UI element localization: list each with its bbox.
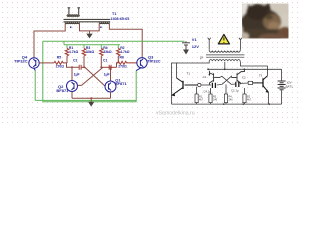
R4 lead down <box>100 57 102 68</box>
V1 negative arrow (down) <box>183 50 189 55</box>
ground arrow symbol (down) <box>88 102 94 107</box>
transistor T1 (right schematic) <box>172 78 198 96</box>
emitter rail junction dot <box>90 97 92 99</box>
svg-text:270Ω: 270Ω <box>56 65 65 69</box>
transistor Q2 circle <box>67 81 78 92</box>
resistor R3 <box>82 48 85 56</box>
svg-text:4.7kΩ: 4.7kΩ <box>120 50 130 54</box>
svg-text:270Ω: 270Ω <box>118 65 127 69</box>
svg-text:33kΩ: 33kΩ <box>103 50 112 54</box>
inner driver transistor T2 (right schematic) <box>209 71 220 85</box>
svg-text:C2: C2 <box>73 59 77 63</box>
junction node dot (Q2 collector) <box>71 66 73 68</box>
left feed rail of right schematic <box>172 63 177 96</box>
transistor T3 (right schematic) <box>253 76 269 92</box>
cross-coupling wire C2right to Q1 base <box>85 67 106 86</box>
transformer T2 bottom winding <box>209 60 240 62</box>
svg-text:R6: R6 <box>120 56 124 60</box>
svg-text:TIP32C: TIP32C <box>14 59 28 64</box>
battery BAT1 riser <box>281 69 283 104</box>
transformer T2 top winding <box>209 50 240 52</box>
transformer T1 primary left winding <box>65 23 80 24</box>
terminal circle on T1 base <box>198 83 201 86</box>
Q3 emitter stub to green <box>136 67 141 70</box>
wire right winding end to T3 collector <box>240 62 267 76</box>
centre-tap arrow symbol (down) <box>86 34 92 39</box>
wire Q1 emitter down <box>110 92 112 98</box>
svg-text:С2 1μ: С2 1μ <box>231 89 239 93</box>
transistor Q1 circle <box>105 81 116 92</box>
svg-text:V1: V1 <box>192 37 198 42</box>
svg-text:1408:65:65: 1408:65:65 <box>110 17 129 21</box>
phase dot right primary <box>100 27 101 28</box>
capacitor C1 <box>105 65 117 70</box>
svg-text:240: 240 <box>229 98 234 101</box>
ground stem <box>90 98 92 102</box>
+V rail of right schematic <box>208 68 282 70</box>
svg-text:Тр: Тр <box>200 56 204 60</box>
resistor R1 <box>65 48 68 56</box>
capacitor C2 <box>79 65 85 70</box>
bias resistor 3 leads <box>225 85 227 105</box>
green resistor bus <box>64 41 120 45</box>
green bottom return rail (outer) <box>43 101 136 103</box>
electrolytic capacitor C4 <box>212 83 215 88</box>
phase dot left primary <box>70 27 71 28</box>
bias resistor box 4 <box>243 94 246 103</box>
svg-text:1μF: 1μF <box>74 72 80 76</box>
svg-text:4k7: 4k7 <box>247 98 252 101</box>
background dotted grid <box>0 0 300 125</box>
bias resistor 2 leads <box>210 88 212 104</box>
battery V1 <box>182 41 190 49</box>
warning triangle <box>218 34 229 44</box>
svg-text:BF871: BF871 <box>56 88 69 93</box>
svg-text:С2: С2 <box>242 76 246 80</box>
bias resistor 4 leads <box>244 88 246 104</box>
resistor R4 <box>100 48 103 56</box>
transformer T1 primary right winding <box>99 23 109 24</box>
junction dots bottom rail <box>223 103 225 105</box>
svg-text:T3: T3 <box>259 74 263 78</box>
Q4 emitter stub to green <box>34 68 35 70</box>
T1 emitter to bottom rail <box>171 96 173 105</box>
inner driver transistor T4 (right schematic) <box>232 69 245 83</box>
cat photo top right <box>239 3 292 41</box>
T2 collector junction dot <box>209 74 211 76</box>
wire: T1 right primary end right-down to Q3 collector <box>109 24 142 58</box>
Q4 base lead to R5 <box>39 62 54 64</box>
R1 lead down <box>66 57 68 63</box>
wire Q1 collector up <box>110 67 112 81</box>
wire Q2 emitter down <box>71 92 73 99</box>
transformer T1 secondary winding (top) <box>67 8 80 16</box>
green Q4 emitter drop <box>34 70 36 100</box>
svg-text:12V: 12V <box>192 44 199 49</box>
base wire to electrolytic C4 <box>201 84 211 86</box>
R3 lead down <box>83 57 85 68</box>
transformer T1 core <box>64 19 111 21</box>
svg-text:240: 240 <box>213 98 218 101</box>
svg-text:BF871: BF871 <box>115 81 128 86</box>
green bottom return rail (inner) <box>35 99 136 101</box>
resistor R5 <box>54 61 67 64</box>
green left vertical of supply loop <box>42 41 44 102</box>
wire Q4-node horizontal (Q2 collector node) <box>71 67 73 80</box>
green +12V rail <box>43 40 185 42</box>
bottom rail (right schematic) <box>172 103 282 105</box>
T2 centre tap <box>224 62 226 69</box>
junction node dot (R3 base node) <box>83 66 85 68</box>
T3 emitter arrowhead <box>266 90 269 93</box>
transistor Q4 circle <box>29 58 39 68</box>
R6 left link down to node <box>117 62 118 64</box>
wire: T1 left primary end down-left to Q4 collector <box>34 24 65 58</box>
bias resistor box 3 <box>224 94 227 103</box>
green resistor top ticks <box>67 45 118 49</box>
svg-text:БАТ1: БАТ1 <box>286 85 294 89</box>
svg-text:C1: C1 <box>103 59 107 63</box>
svg-text:С1: С1 <box>203 75 207 79</box>
bias resistor box 1 <box>195 94 198 103</box>
svg-text:4.7kΩ: 4.7kΩ <box>69 50 79 54</box>
svg-text:T1: T1 <box>187 72 191 76</box>
resistor R6 <box>118 61 138 64</box>
T1 emitter arrowhead <box>172 93 176 96</box>
cross-coupling X wires (right schematic) <box>220 76 232 84</box>
wire R5 to Q2 collector node <box>67 63 80 67</box>
junction node dot (Q1 collector) <box>110 66 112 68</box>
battery BAT1 cells <box>278 81 286 90</box>
svg-text:1μF: 1μF <box>104 72 110 76</box>
transformer T2 core <box>206 55 244 57</box>
bias resistor box 2 <box>209 94 212 103</box>
svg-text:4k7: 4k7 <box>199 98 204 101</box>
cross-coupling wire C1left to Q2 base <box>78 67 103 85</box>
svg-text:33kΩ: 33kΩ <box>86 50 95 54</box>
electrolytic capacitor C2 (right schematic) <box>236 82 239 87</box>
junction node dot (R4 base node) <box>100 66 102 68</box>
svg-text:vSamodelkina.ru: vSamodelkina.ru <box>156 110 195 116</box>
emitter rail <box>72 97 111 99</box>
svg-text:T1: T1 <box>112 12 116 16</box>
wire: T1 centre tap leads <box>80 24 100 34</box>
transistor Q3 circle <box>137 58 147 68</box>
wire X to T3 base via R box <box>231 83 248 84</box>
junction dots on rail <box>207 68 209 70</box>
wire C4 to cross <box>217 83 222 86</box>
T2 top terminal left (Y) <box>208 38 211 50</box>
resistor R2 <box>117 48 120 56</box>
T3 emitter to bottom rail <box>268 92 270 104</box>
bias resistor 1 leads <box>196 87 198 104</box>
wire left winding end to T1 collector <box>177 62 210 78</box>
svg-text:R5: R5 <box>57 56 61 60</box>
R2 lead down <box>117 57 119 68</box>
green Q3 emitter drop <box>135 71 137 102</box>
wire C1 left to R4 node <box>101 66 105 68</box>
resistor box at T3 base <box>248 81 252 84</box>
svg-text:TIP32C: TIP32C <box>147 59 161 64</box>
T2 top terminal right (Y) <box>239 38 242 50</box>
